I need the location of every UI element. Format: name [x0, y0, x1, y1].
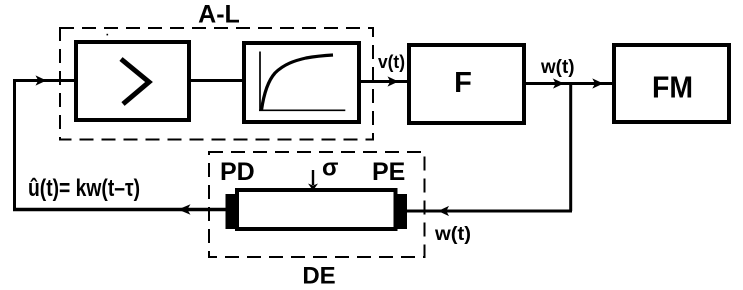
- delay element body: [237, 190, 396, 229]
- wire feedback left vertical: [13, 79, 16, 211]
- wire saturation to F: [361, 80, 407, 83]
- svg-text:FM: FM: [652, 70, 693, 105]
- svg-text:w(t): w(t): [540, 56, 574, 78]
- wire amplifier to saturation: [191, 79, 244, 82]
- wire delay output to feedback: [13, 208, 226, 212]
- svg-text:PE: PE: [372, 158, 405, 186]
- svg-text:v(t): v(t): [378, 51, 405, 72]
- block amplifier: [76, 42, 189, 120]
- wire input into amplifier: [13, 79, 76, 82]
- dashed box A-L: [60, 28, 373, 140]
- wire F to FM: [526, 82, 612, 85]
- saturation graph y-axis: [259, 52, 261, 111]
- svg-text:DE: DE: [302, 263, 335, 290]
- svg-text:PD: PD: [220, 158, 255, 186]
- svg-text:σ: σ: [322, 155, 338, 182]
- saturation curve: [262, 55, 334, 110]
- wire junction vertical drop: [569, 84, 572, 212]
- arrowhead into delay element: [438, 206, 449, 216]
- arrowhead into FM: [592, 78, 603, 88]
- dashed box DE: [209, 152, 425, 257]
- svg-text:F: F: [454, 67, 472, 99]
- block FM: [614, 45, 729, 122]
- amplifier chevron symbol: [121, 59, 149, 104]
- delay element left cap: [226, 194, 237, 229]
- speck artifact: [107, 34, 109, 36]
- arrowhead into amplifier: [36, 75, 47, 85]
- arrowhead feedback: [178, 204, 191, 215]
- svg-text:w(t): w(t): [434, 223, 471, 245]
- svg-text:û(t)= kw(t–τ): û(t)= kw(t–τ): [28, 175, 140, 202]
- wire down to delay element: [407, 210, 572, 213]
- delay element right cap: [397, 194, 407, 229]
- block saturation: [244, 43, 359, 122]
- block F: [409, 45, 524, 123]
- saturation graph x-axis: [259, 109, 345, 111]
- arrowhead before junction: [553, 78, 564, 88]
- svg-text:A-L: A-L: [198, 1, 240, 29]
- sigma input arrow: [312, 170, 314, 185]
- arrowhead into F: [388, 76, 399, 86]
